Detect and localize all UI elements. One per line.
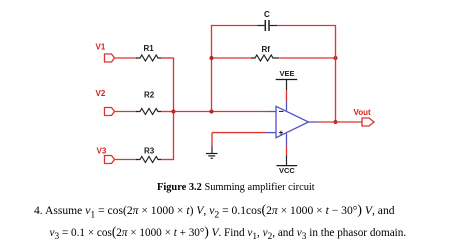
resistor R3 xyxy=(136,157,161,163)
wire V1 to R1 xyxy=(115,57,138,59)
wire node B up to feedback branches xyxy=(211,25,213,112)
pin VCC (negative supply, bottom) xyxy=(286,134,288,147)
wire R1 to corner xyxy=(161,57,174,59)
power symbol VCC xyxy=(277,156,298,166)
svg-text:R1: R1 xyxy=(144,44,155,53)
wire top branch left (to capacitor) xyxy=(211,25,258,27)
pin output xyxy=(309,121,318,123)
label R2 xyxy=(144,91,155,100)
wire R3 corner up to node A xyxy=(173,112,175,161)
problem text line 2 xyxy=(50,227,407,242)
label R3 xyxy=(144,147,155,156)
wire top branch right (capacitor to right rail) xyxy=(277,25,336,27)
svg-text:VCC: VCC xyxy=(279,166,295,175)
label VCC xyxy=(279,166,295,175)
svg-text:Rf: Rf xyxy=(262,45,271,54)
power symbol VEE xyxy=(276,80,298,91)
label V3 xyxy=(97,147,107,156)
junction node A xyxy=(172,110,176,114)
label Vout xyxy=(354,108,372,117)
label R1 xyxy=(144,44,155,53)
wire R1 corner down to node A xyxy=(173,58,175,112)
resistor Rf xyxy=(251,55,279,61)
svg-text:C: C xyxy=(264,10,270,19)
pin inverting input xyxy=(266,111,276,113)
svg-text:VEE: VEE xyxy=(280,69,295,78)
resistor R2 xyxy=(136,109,161,115)
wire V2 to R2 xyxy=(115,111,138,113)
svg-text:R2: R2 xyxy=(144,91,155,100)
caption Figure 3.2 xyxy=(157,182,315,193)
port Vout xyxy=(362,118,374,126)
wire VCC xyxy=(286,146,288,156)
svg-text:V1: V1 xyxy=(96,43,106,52)
problem text line 1 xyxy=(34,204,395,220)
junction node B (inverting node / feedback tap) xyxy=(210,110,214,114)
port V2 xyxy=(105,108,115,116)
wire VEE xyxy=(286,90,288,101)
pin VEE (positive supply, top) xyxy=(286,101,288,111)
port V1 xyxy=(105,54,115,62)
wire V3 to R3 xyxy=(115,159,138,161)
label C xyxy=(264,10,270,19)
junction Rf left xyxy=(210,56,214,60)
wire R2 to node A xyxy=(161,111,174,113)
label Rf xyxy=(262,45,271,54)
junction Rf right xyxy=(334,56,338,60)
wire ground corner down xyxy=(211,133,213,147)
svg-text:V3: V3 xyxy=(97,147,107,156)
svg-text:V2: V2 xyxy=(96,89,106,98)
wire non-inverting input to ground corner xyxy=(212,132,266,134)
wire node A to op-amp inverting input xyxy=(174,111,267,113)
svg-text:Vout: Vout xyxy=(354,108,372,117)
ground xyxy=(206,147,218,159)
resistor R1 xyxy=(136,55,161,61)
wire right rail down to output node xyxy=(335,25,337,122)
label VEE xyxy=(280,69,295,78)
port V3 xyxy=(105,156,115,164)
pin non-inverting input xyxy=(266,132,276,134)
label V1 xyxy=(96,43,106,52)
wire Rf branch right xyxy=(279,57,337,59)
wire Rf branch left xyxy=(212,57,252,59)
op-amp U1 xyxy=(276,106,309,137)
label V2 xyxy=(96,89,106,98)
svg-text:R3: R3 xyxy=(144,147,155,156)
wire R3 to corner xyxy=(161,159,174,161)
wire output to Vout xyxy=(317,121,362,123)
capacitor C xyxy=(258,20,278,31)
junction output node xyxy=(334,120,338,124)
